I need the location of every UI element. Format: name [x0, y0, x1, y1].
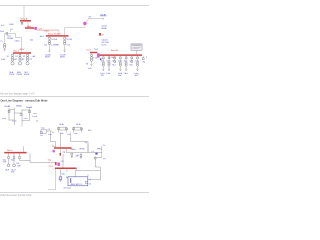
svg-text:Gr-B: Gr-B	[76, 123, 81, 126]
row wire from bus B4	[67, 149, 102, 153]
ring network cluster	[2, 105, 38, 127]
small breaker below B2 start	[100, 58, 102, 60]
wire utility tap	[88, 18, 102, 20]
bus Btop	[20, 20, 31, 22]
svg-text:480V: 480V	[45, 57, 50, 59]
wire star to tap	[86, 19, 88, 22]
magenta breaker at badge corner	[35, 27, 37, 30]
breaker sq left	[6, 33, 8, 35]
wire left network	[5, 33, 22, 52]
wire B6 to MCC	[75, 168, 100, 177]
svg-text:Gnd res: Gnd res	[64, 187, 71, 190]
page 2 bottom line	[0, 192, 149, 194]
tie breaker magenta	[97, 53, 100, 57]
motor chain M8	[23, 54, 33, 76]
feeder chain 8 short	[142, 56, 146, 63]
svg-text:M-c: M-c	[113, 65, 116, 67]
L-wire from bus B6 left end	[48, 169, 56, 190]
svg-text:52-1B: 52-1B	[66, 39, 72, 41]
magenta breaker2	[57, 163, 60, 166]
motor chain P2-1	[3, 153, 10, 171]
bus B6	[55, 167, 77, 169]
blue box MCC	[68, 177, 88, 186]
feeder chain 3 below bus B2	[113, 56, 116, 67]
svg-text:480V MCC-1: 480V MCC-1	[71, 184, 84, 186]
svg-text:52-1A: 52-1A	[51, 38, 57, 41]
motor chain P2-3	[16, 153, 30, 167]
svg-text:TxA: TxA	[1, 58, 5, 61]
riser Cy	[87, 144, 89, 153]
breaker below Btop	[21, 22, 23, 24]
right riser cluster	[88, 145, 106, 180]
page separator line	[0, 95, 149, 97]
svg-text:M-f: M-f	[130, 65, 133, 67]
labels right of MCC	[87, 175, 89, 177]
wire riser from star to bus B1	[65, 25, 85, 35]
red tick below B4	[60, 153, 61, 156]
svg-text:600A: 600A	[102, 27, 107, 30]
bus B1	[46, 35, 69, 37]
breaker red closed	[99, 33, 101, 36]
chain A below bus B1	[44, 37, 59, 59]
bus B2	[100, 54, 143, 56]
group VFDc	[92, 149, 103, 159]
feeder chain 5 below bus B2	[124, 56, 129, 75]
transformer T1	[0, 34, 6, 51]
wire left elbow	[11, 28, 13, 32]
svg-text:Cbl-4: Cbl-4	[15, 41, 21, 43]
far right stub	[146, 56, 148, 59]
bus B5	[4, 152, 26, 154]
chain T3 below bus B1R	[86, 53, 98, 70]
pink cable drop to bus	[58, 30, 60, 35]
svg-text:LdR: LdR	[17, 165, 21, 167]
long wire to magenta	[30, 162, 55, 164]
motor chain M6	[1, 54, 18, 76]
equivalent grid box	[131, 44, 142, 51]
motor chain P2-2	[11, 153, 16, 173]
motor chain M7	[15, 54, 25, 76]
bus B3	[13, 52, 31, 54]
svg-text:VFDc: VFDc	[97, 149, 102, 151]
svg-text:kcmil: kcmil	[102, 44, 107, 46]
feeder chain 6 below bus B2	[130, 56, 133, 67]
pink cable highlight	[37, 29, 59, 31]
generator chain below B6	[59, 169, 71, 190]
svg-text:One-Line Diagram - nanopq Edit: One-Line Diagram - nanopq Edit Mode	[1, 98, 49, 102]
wire into bus B5	[23, 147, 25, 152]
drop 2 below B6	[62, 169, 68, 175]
svg-text:VFDa: VFDa	[71, 149, 77, 151]
svg-text:M-P: M-P	[6, 169, 10, 171]
svg-text:1.5MVA: 1.5MVA	[51, 44, 59, 47]
page 1 top border	[0, 5, 149, 7]
wire from B4 drop	[59, 149, 61, 153]
svg-text:1200A: 1200A	[7, 37, 14, 40]
wire grid box to bus	[136, 50, 138, 54]
svg-text:CbM: CbM	[9, 24, 14, 26]
magenta source star	[83, 22, 86, 25]
bus B1R	[90, 52, 97, 54]
feeder chain 4 below bus B2	[118, 56, 123, 77]
svg-text:Lnc: Lnc	[67, 134, 70, 136]
svg-text:Cc: Cc	[52, 132, 55, 134]
magenta breaker left of B4 drop	[53, 150, 55, 153]
svg-text:Bus-2A: Bus-2A	[111, 49, 118, 52]
svg-text:75kW: 75kW	[9, 74, 14, 76]
drop 1 below Btop	[21, 22, 23, 25]
sub cluster 2	[36, 121, 56, 148]
bus B0	[25, 27, 34, 29]
incoming wire to top bus	[23, 6, 25, 20]
group VFDb	[77, 149, 86, 159]
svg-text:Edit View Insert Format To: Edit View Insert Format Tools	[1, 194, 33, 197]
bus B4	[54, 147, 72, 149]
svg-text:Gr-A: Gr-A	[59, 123, 64, 126]
svg-text:Ln-c: Ln-c	[24, 118, 28, 120]
svg-text:NetA2: NetA2	[16, 105, 23, 108]
red mini breaker	[55, 162, 56, 165]
svg-text:55kW: 55kW	[17, 74, 22, 76]
riser from B5 to long wire	[29, 153, 31, 162]
svg-text:480V: 480V	[60, 57, 65, 59]
group VFDa	[71, 149, 79, 158]
drop 2 below Btop into bus B0	[27, 22, 29, 28]
chain B below bus B1	[60, 37, 73, 59]
feeder chain 2 below bus B2	[107, 56, 112, 75]
svg-text:NetA1: NetA1	[5, 105, 12, 108]
svg-text:file one-line diagram page 1 o: file one-line diagram page 1 of 2	[1, 93, 36, 96]
svg-text:TxP: TxP	[3, 162, 7, 164]
svg-text:45kW: 45kW	[24, 74, 29, 76]
feeder chain 1 below bus B2	[101, 56, 106, 77]
svg-text:480V: 480V	[20, 49, 25, 51]
feeder chain 7 below bus B2	[135, 56, 140, 77]
group B loop	[67, 123, 88, 152]
group A loop	[48, 123, 67, 147]
svg-text:VFDb: VFDb	[79, 149, 85, 151]
svg-text:Cab2: Cab2	[44, 30, 50, 32]
wire from cluster down to B6	[62, 154, 64, 168]
svg-text:Ps: Ps	[103, 159, 105, 161]
